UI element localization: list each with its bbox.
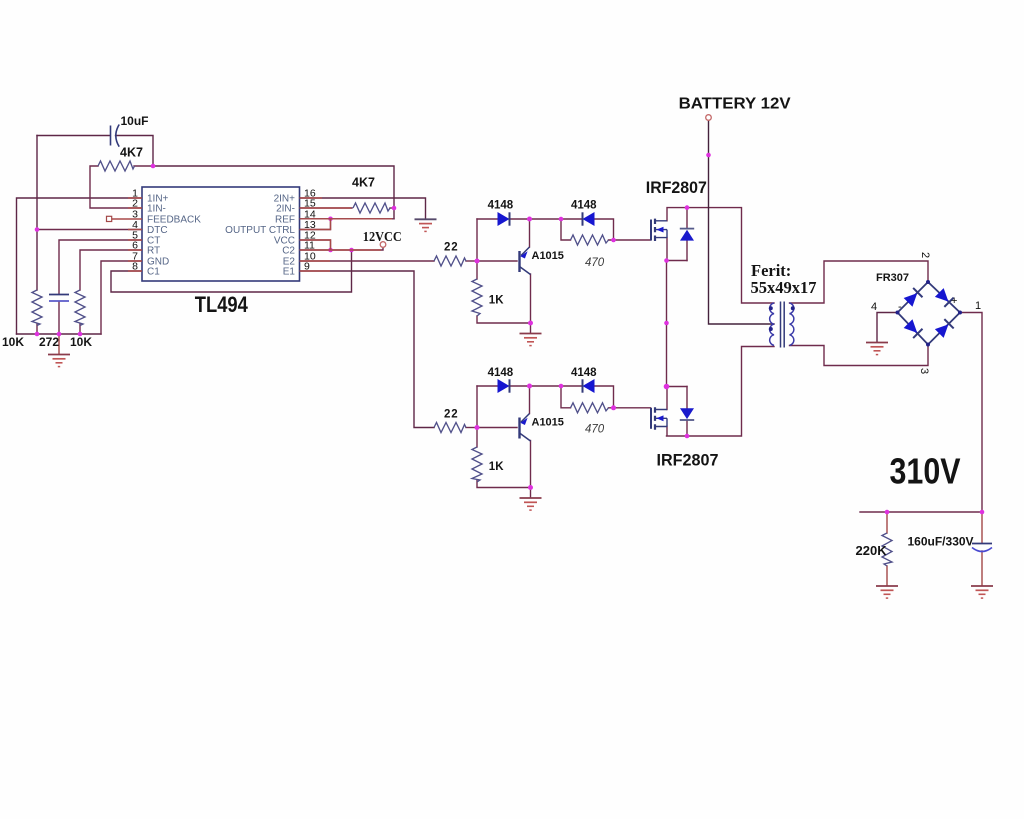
ground bridge pin4 [866,343,888,355]
wire pin16 to ground [300,198,426,219]
wire cap272 bottom lead and ground lead [58,302,60,335]
wire secondary top to bridge [790,261,929,303]
body diode lower (blue, reversed) [680,408,694,420]
wire upper driver node column [476,219,478,279]
IC pin numbers left [132,188,138,273]
wire pin11 C2 to 12VCC [300,248,384,250]
svg-text:4K7: 4K7 [120,146,143,160]
wire upper 1K bottom rail [477,316,531,323]
diode 4148 lower first [498,379,510,393]
svg-text:8: 8 [132,261,138,273]
wire lower body diode leads [686,387,688,437]
svg-text:4148: 4148 [488,367,514,379]
svg-text:160uF/330V: 160uF/330V [908,535,974,549]
bridge node dots [896,280,963,347]
resistor 22 lower [434,423,466,433]
svg-text:A1015: A1015 [532,250,564,262]
wire 10uF left lead [37,135,110,137]
wire upper collector vertical [530,274,532,333]
transformer T1 ferrite [769,302,795,348]
svg-text:1K: 1K [489,294,504,306]
resistor 22 upper [434,256,466,266]
svg-text:470: 470 [585,424,605,436]
svg-text:9: 9 [304,261,310,273]
wire feedback top bus [153,166,394,219]
body diode upper (blue) [680,229,694,241]
resistor 4K7 left [98,161,135,171]
ground right of 4K7 (pin16 net) [415,219,437,231]
wire 10uF right lead [116,136,154,167]
wire upper combo frame [561,219,614,240]
wire 22 upper right lead [466,260,477,262]
diode 4148 upper second (reversed) [583,212,595,226]
wire source-to-drain column [666,261,668,387]
transistor A1015 lower Q2 [520,414,531,442]
resistor 470 upper [571,235,609,245]
ground upper driver [520,334,542,346]
bridge rectifier FR307 frame [898,282,961,345]
wire 10K1 bottom lead [36,324,38,334]
wire pin4 DTC [37,229,142,231]
wire upper gate lead [614,239,651,241]
svg-text:470: 470 [585,257,605,269]
svg-text:22: 22 [444,242,458,254]
wire 4K7 right lead to node A [134,165,153,167]
wire upper base lead [477,260,517,262]
ground lower driver [520,498,542,510]
wire pin5 CT to cap272 [59,240,142,294]
wire lower diode1 leads [477,385,561,387]
bridge diode bottom-left [903,319,922,338]
wire lower driver node column [476,386,478,447]
wire pin10 E2 to 22 [300,260,435,262]
svg-text:REF: REF [275,214,295,225]
svg-text:1IN-: 1IN- [147,204,166,215]
capacitor 160uF/330V [972,544,992,552]
mosfet IRF2807 lower Q4 [651,407,667,429]
wire lower source rail to transformer [667,347,775,437]
wire pin12 VCC branch [300,240,331,250]
wire 220K leads [886,512,888,585]
bridge diode top-right [935,288,954,307]
resistor 10K left2 [75,290,85,326]
svg-text:272: 272 [39,335,59,349]
wire upper mosfet drain rail [667,208,774,303]
wire 10K2 bottom lead [79,324,81,334]
svg-text:TL494: TL494 [195,292,249,317]
wire ground rail bottom-left [17,333,102,335]
svg-text:C2: C2 [282,246,295,257]
wire pin2 to 4K7 [90,166,142,208]
svg-text:OUTPUT CTRL: OUTPUT CTRL [225,225,295,236]
wire upper body diode leads [686,208,688,261]
wire lower 1K bottom rail [477,481,531,488]
svg-text:IRF2807: IRF2807 [646,178,707,197]
svg-text:A1015: A1015 [532,417,564,429]
IC pin names right [225,194,295,278]
wire pin15 to 4K7 right [300,207,353,209]
ground under output cap [971,586,993,598]
svg-text:4148: 4148 [571,200,597,212]
wire 4K7 right resistor lead [390,207,394,209]
svg-text:FEEDBACK: FEEDBACK [147,214,201,225]
wire REF branch to pin13 [300,219,331,230]
svg-text:DTC: DTC [147,225,168,236]
capacitor 10uF [111,125,120,147]
resistor 1K upper [472,279,482,316]
diode 4148 lower second (reversed) [583,379,595,393]
svg-text:310V: 310V [890,451,962,492]
svg-text:BATTERY 12V: BATTERY 12V [679,95,792,112]
capacitor 272 [49,295,69,302]
svg-text:RT: RT [147,246,160,257]
svg-text:10uF: 10uF [121,114,149,128]
svg-text:10K: 10K [2,335,24,349]
wire secondary bottom to bridge [790,345,929,366]
wire pin9 E1 long route to lower 22 [300,271,435,428]
wire cap left vertical to 10K [36,136,38,291]
svg-text:E1: E1 [283,267,296,278]
wire bridge minus to ground [877,313,898,343]
terminal 12VCC [380,242,386,248]
resistor 10K left1 [32,290,42,326]
wire pin7 GND to rail [101,261,142,334]
wire output cap leads [981,512,983,585]
svg-text:1: 1 [975,300,981,312]
terminal BATTERY 12V [706,115,712,121]
svg-text:IRF2807: IRF2807 [657,451,719,470]
ground under 272 [48,355,70,367]
pin stubs red tint [112,198,392,271]
svg-text:12VCC: 12VCC [363,229,402,244]
svg-text:22: 22 [444,409,458,421]
transistor A1015 upper Q1 [520,247,531,275]
wire lower gate lead [614,407,651,409]
resistor 1K lower [472,447,482,482]
wire upper mosfet source [667,238,688,261]
wire 310V rail [860,511,982,513]
IC pin numbers right [304,188,316,273]
svg-text:4148: 4148 [488,200,514,212]
wire 22 lower right lead [466,427,477,429]
wire lower base lead [477,427,517,429]
resistor 470 lower [571,403,609,413]
svg-text:4148: 4148 [571,367,597,379]
svg-text:4K7: 4K7 [352,176,375,190]
wire bridge plus down to 310V rail [960,313,982,513]
square marker pin3 feedback [107,216,112,221]
wire lower emitter vertical [529,386,531,414]
svg-text:2IN-: 2IN- [276,204,295,215]
wire pin6 RT to 10K [80,250,142,290]
svg-text:4: 4 [871,301,877,313]
svg-text:10K: 10K [70,335,92,349]
svg-text:1K: 1K [489,461,504,473]
diode 4148 upper first [498,212,510,226]
bridge diode bottom-right [935,319,954,338]
IC TL494 body U1 [142,187,300,281]
svg-text:-: - [898,301,902,313]
svg-text:3: 3 [918,368,930,374]
wire pin8 C1 link to C2 [111,250,352,292]
resistor 4K7 right (pin15) [353,203,390,213]
svg-text:2: 2 [919,252,931,258]
IC pin names left [147,194,201,278]
wire upper diode1 leads [477,218,561,220]
ground under 220K [876,586,898,598]
svg-text:+: + [951,295,957,307]
mosfet IRF2807 upper Q3 [651,219,667,241]
wire lower collector vertical [530,441,532,498]
svg-text:FR307: FR307 [876,272,909,284]
bridge diode top-left [903,288,922,307]
wire lower mosfet drain link [667,387,688,410]
wire pin14 REF bus [300,218,395,220]
wire lower combo frame [561,386,614,408]
svg-text:55x49x17: 55x49x17 [751,278,817,297]
wire upper emitter vertical [529,219,531,247]
resistor 220K [882,533,892,566]
svg-text:C1: C1 [147,267,160,278]
wire pin1 loop left [17,198,143,334]
wire battery feed to center tap [709,120,775,324]
svg-text:220K: 220K [856,543,888,558]
